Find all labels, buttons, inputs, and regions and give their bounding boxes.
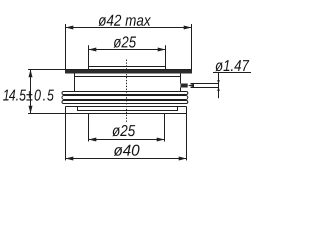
centerline [126, 60, 128, 124]
14.5 dimension line [30, 70, 32, 114]
ø1.47 leader shoulder [213, 72, 251, 74]
top pole right edge / ø25 extension [165, 45, 167, 69]
arrow ø42 left [66, 26, 74, 30]
bottom flange right outer edge [186, 107, 188, 114]
arrow ø25 bottom left [89, 138, 97, 142]
bottom pole face / ø25 dimension line [89, 139, 165, 141]
label ø40 [114, 145, 140, 156]
flange ø42 band [65, 70, 192, 74]
ø1.47 dimension vertical [218, 73, 220, 99]
bottom pole right edge / ø25 extension [164, 114, 166, 142]
top pole face (ø25) [89, 66, 166, 68]
arrow ø40 right [179, 157, 187, 161]
flange top line / 14.5 top extension [28, 69, 192, 71]
body left edge [74, 77, 76, 92]
ø42 dimension line [66, 27, 192, 29]
ø40 extension right [186, 114, 188, 161]
arrow ø25 bottom right [157, 138, 165, 142]
bottom flange bottom face / 14.5 bottom extension [28, 113, 187, 115]
bottom pole left edge / ø25 extension [88, 114, 90, 142]
body right edge below gate lead [180, 88, 182, 92]
body right edge above gate lead [180, 77, 182, 84]
label ø1.47 [215, 60, 249, 71]
label ø42 max [99, 15, 152, 26]
arrow ø1.47 lower [217, 87, 220, 91]
top pole left edge / ø25 extension [88, 45, 90, 69]
ring under flange [75, 74, 181, 77]
label ø25 bottom [112, 125, 135, 136]
label 14.5±0.5 [3, 90, 54, 101]
ø42 extension right [191, 24, 193, 70]
arrow ø42 right [184, 26, 192, 30]
ø40 extension left [65, 114, 67, 161]
ø40 dimension line [66, 158, 187, 160]
gate lead extension bottom [191, 87, 219, 89]
arrow ø25 top left [89, 48, 97, 52]
ceramic rib 3 [62, 101, 188, 104]
label ø25 top [114, 36, 137, 47]
ceramic rib 2 [62, 96, 188, 100]
bottom flange lip line [78, 107, 178, 111]
arrow 14.5 bottom [29, 106, 33, 114]
gate lead body [181, 84, 188, 88]
ø25 top dimension line [89, 49, 166, 51]
ø42 extension left [65, 24, 67, 70]
bottom flange top line [66, 106, 187, 108]
gate lead extension top [191, 83, 219, 85]
arrow ø40 left [66, 157, 74, 161]
ceramic rib 1 [62, 92, 188, 95]
bottom flange left outer edge [65, 107, 67, 114]
arrow at gate lead tip [188, 84, 194, 88]
arrow ø25 top right [158, 48, 166, 52]
arrow ø1.47 upper [217, 80, 220, 84]
arrow 14.5 top [29, 70, 33, 78]
